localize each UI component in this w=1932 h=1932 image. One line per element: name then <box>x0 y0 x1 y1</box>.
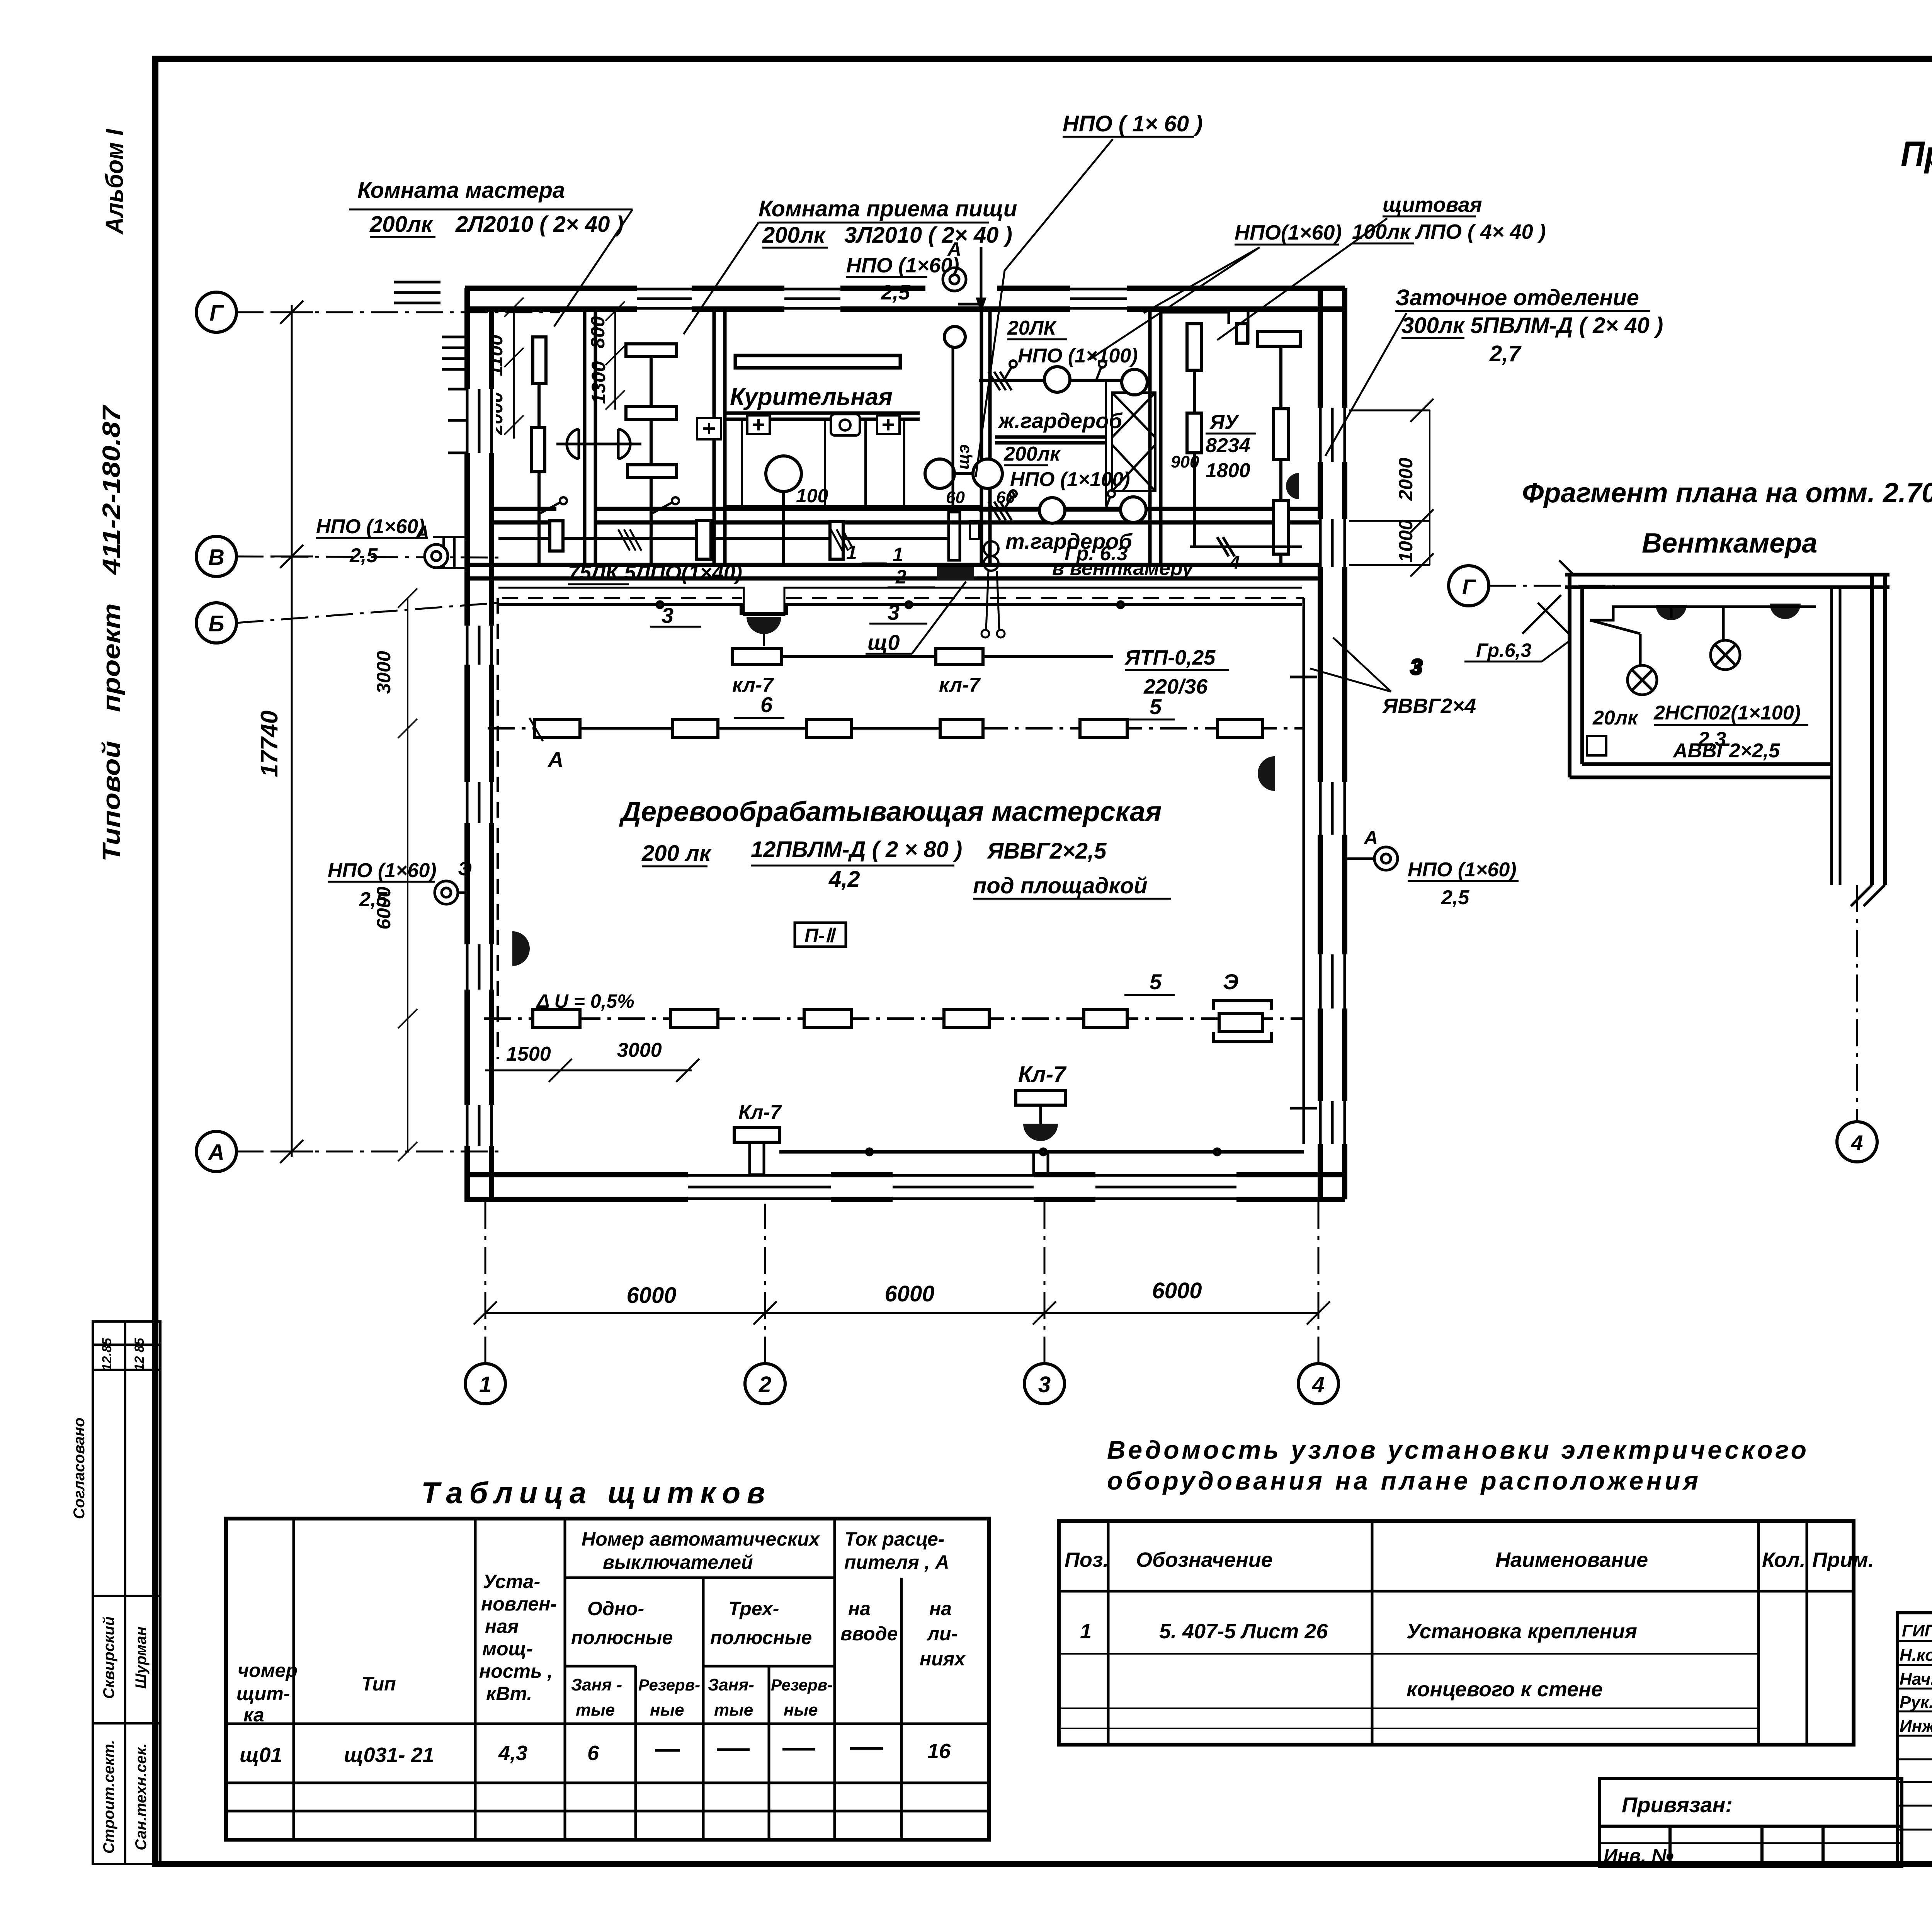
svg-text:3Л2010 ( 2× 40 ): 3Л2010 ( 2× 40 ) <box>844 223 1012 248</box>
vedomost title <box>1107 1435 1806 1495</box>
svg-text:НПО (1×60): НПО (1×60) <box>328 859 437 882</box>
svg-text:200 лк: 200 лк <box>641 841 712 866</box>
switch room lamps <box>1187 324 1300 565</box>
shchO panel black <box>937 567 974 580</box>
svg-text:1300: 1300 <box>588 361 609 404</box>
svg-text:НПО (1×100): НПО (1×100) <box>1018 345 1138 367</box>
mini plan entry arrow <box>1522 560 1575 634</box>
smoking room bench <box>735 355 900 368</box>
svg-text:3: 3 <box>1038 1372 1051 1397</box>
kl-7 row boxes <box>732 648 1113 665</box>
svg-text:чомер: чомер <box>238 1660 298 1681</box>
svg-text:6000: 6000 <box>884 1281 934 1306</box>
svg-text:2,5: 2,5 <box>359 888 388 911</box>
svg-text:Принципиальная схема питающей: Принципиальная схема питающей сети <box>1901 134 1932 174</box>
svg-text:щ0: щ0 <box>867 630 900 655</box>
svg-text:5: 5 <box>1150 694 1162 719</box>
svg-text:ные: ные <box>784 1701 818 1719</box>
hall top dashed wiring <box>502 597 1304 599</box>
svg-text:200лк: 200лк <box>762 223 826 248</box>
smoking room plus box <box>697 418 721 439</box>
npo 1x60 2,5 center <box>846 254 959 304</box>
svg-text:Установка крепления: Установка крепления <box>1406 1620 1637 1643</box>
riser double circle A top <box>925 236 997 304</box>
svg-text:2,5: 2,5 <box>1441 886 1469 909</box>
svg-text:П-Ⅱ: П-Ⅱ <box>804 925 837 946</box>
svg-text:Резерв-: Резерв- <box>638 1676 700 1694</box>
svg-text:Комната мастера: Комната мастера <box>357 178 565 203</box>
plan bottom wall <box>467 1175 1345 1199</box>
tablitsa shchitkov frame <box>226 1519 989 1840</box>
wall lamp black <box>1286 473 1299 499</box>
svg-text:Кл-7: Кл-7 <box>738 1101 782 1124</box>
P-II box label <box>795 923 846 947</box>
entry steps left <box>433 537 465 568</box>
svg-text:Э: Э <box>1223 969 1238 994</box>
svg-text:Номер автоматических: Номер автоматических <box>582 1528 821 1550</box>
svg-text:щитовая: щитовая <box>1383 193 1482 216</box>
axis dash-dot lines <box>236 312 1318 1364</box>
svg-text:6000: 6000 <box>1152 1278 1202 1303</box>
margin text project number <box>97 404 125 862</box>
YaU 8234 label <box>1206 411 1250 482</box>
corridor lamps <box>550 520 843 559</box>
svg-text:200лк: 200лк <box>369 212 434 237</box>
svg-text:ГИП: ГИП <box>1902 1621 1932 1640</box>
hall row1 lamp rects <box>535 719 1263 737</box>
hall door notch lamp <box>747 617 781 634</box>
wardrobe lamps row1 <box>979 367 1147 395</box>
svg-text:75ЛК 5ЛПО(1×40): 75ЛК 5ЛПО(1×40) <box>568 561 742 584</box>
svg-text:кВт.: кВт. <box>486 1683 532 1704</box>
svg-text:4,3: 4,3 <box>498 1742 527 1765</box>
svg-text:тые: тые <box>714 1701 753 1719</box>
svg-text:Деревообрабатывающая мастерск: Деревообрабатывающая мастерская <box>619 796 1162 827</box>
svg-text:12ПВЛМ-Д ( 2 × 80 ): 12ПВЛМ-Д ( 2 × 80 ) <box>751 837 962 862</box>
svg-text:на: на <box>848 1598 871 1619</box>
svg-text:ЯВВГ2×4: ЯВВГ2×4 <box>1382 694 1476 718</box>
svg-text:Заточное отделение: Заточное отделение <box>1395 285 1639 310</box>
row1 labels 6 5 <box>760 692 1162 719</box>
interior dim chain lines <box>504 298 1430 565</box>
privyazan block <box>1600 1779 1902 1866</box>
svg-text:Курительная: Курительная <box>730 384 893 410</box>
bottom kl-7 mid with lamp <box>1016 1062 1067 1175</box>
svg-text:300лк 5ПВЛМ-Д ( 2× 40 ): 300лк 5ПВЛМ-Д ( 2× 40 ) <box>1401 313 1663 338</box>
wc plus box <box>747 415 900 434</box>
svg-text:1800: 1800 <box>1206 459 1250 482</box>
switch room bottom wire <box>1190 537 1302 556</box>
svg-text:мощ-: мощ- <box>482 1638 533 1660</box>
svg-text:Обозначение: Обозначение <box>1136 1548 1273 1571</box>
komnata priema label <box>759 196 1017 248</box>
svg-text:60: 60 <box>946 488 965 507</box>
svg-text:2,7: 2,7 <box>1489 341 1522 366</box>
svg-text:НПО ( 1× 60 ): НПО ( 1× 60 ) <box>1063 111 1202 136</box>
svg-text:Типовой проект 411-2-180.87: Типовой проект 411-2-180.87 <box>97 404 125 862</box>
right A marker <box>1374 847 1398 870</box>
mini plan axis 4 <box>1856 885 1858 1121</box>
svg-text:3: 3 <box>888 600 900 624</box>
grid axis letter circles <box>196 292 236 1172</box>
svg-text:5: 5 <box>1150 969 1162 994</box>
YaTP label <box>1124 646 1216 698</box>
svg-text:20лк: 20лк <box>1592 707 1639 729</box>
hall right dash-dot riser <box>498 588 1304 1144</box>
svg-text:1: 1 <box>479 1372 492 1397</box>
svg-text:Альбом I: Альбом I <box>100 129 128 235</box>
svg-text:Заня-: Заня- <box>708 1675 754 1694</box>
svg-text:НПО (1×60): НПО (1×60) <box>846 254 959 277</box>
svg-text:8234: 8234 <box>1206 434 1250 457</box>
svg-text:1: 1 <box>893 544 903 565</box>
tablitsa header texts <box>236 1528 966 1726</box>
svg-text:12 85: 12 85 <box>132 1337 147 1371</box>
svg-text:новлен-: новлен- <box>481 1593 557 1615</box>
axis number circles 1-4 <box>465 1364 1338 1404</box>
svg-text:АВВГ2×2,5: АВВГ2×2,5 <box>1672 740 1780 762</box>
svg-text:Кол.: Кол. <box>1762 1548 1806 1571</box>
hall fixture row2 dash-dot <box>484 1017 1304 1020</box>
svg-text:концевого к стене: концевого к стене <box>1406 1678 1603 1701</box>
svg-text:Наименование: Наименование <box>1495 1548 1648 1571</box>
svg-text:под площадкой: под площадкой <box>973 873 1148 898</box>
svg-text:20ЛК: 20ЛК <box>1007 317 1057 339</box>
svg-text:полюсные: полюсные <box>710 1627 812 1648</box>
svg-text:2НСП02(1×100): 2НСП02(1×100) <box>1653 702 1801 724</box>
plan outer walls: top wall <box>465 288 1345 309</box>
svg-text:4,2: 4,2 <box>828 867 860 892</box>
mini plan x-lamps <box>1628 640 1740 695</box>
svg-text:Сан.техн.сек.: Сан.техн.сек. <box>133 1743 150 1850</box>
svg-text:16: 16 <box>927 1740 951 1763</box>
svg-text:3000: 3000 <box>617 1039 662 1061</box>
svg-text:17740: 17740 <box>256 711 283 777</box>
svg-text:12.85: 12.85 <box>100 1337 114 1371</box>
svg-text:Одно-: Одно- <box>587 1598 644 1619</box>
svg-text:Э: Э <box>458 858 472 879</box>
hall left dashed riser <box>497 598 499 1059</box>
svg-text:2Л2010 ( 2× 40 ): 2Л2010 ( 2× 40 ) <box>455 212 624 237</box>
svg-text:3: 3 <box>1410 655 1422 679</box>
svg-text:ниях: ниях <box>920 1648 966 1670</box>
svg-text:4: 4 <box>1312 1372 1325 1397</box>
svg-text:Трех-: Трех- <box>728 1598 779 1619</box>
svg-text:Резерв-: Резерв- <box>771 1676 833 1694</box>
svg-text:в венткамеру: в венткамеру <box>1052 557 1194 580</box>
svg-text:4: 4 <box>1850 1131 1863 1155</box>
svg-text:Сквирский: Сквирский <box>100 1616 117 1699</box>
svg-text:Согласовано: Согласовано <box>71 1418 88 1519</box>
room1 speaker symbols <box>556 429 641 459</box>
svg-text:200лк: 200лк <box>1003 443 1061 465</box>
wc partitions <box>725 419 981 506</box>
room2 switch <box>651 497 679 514</box>
svg-text:ная: ная <box>485 1616 519 1637</box>
wardrobe row1 switch <box>988 361 1106 390</box>
wc lamps 60 60 <box>925 459 1002 488</box>
svg-text:2: 2 <box>759 1372 771 1397</box>
zatochnoe label <box>1395 285 1663 366</box>
svg-text:ЯТП-0,25: ЯТП-0,25 <box>1124 646 1216 669</box>
svg-text:Привязан:: Привязан: <box>1622 1793 1733 1817</box>
bottom kl-7 left <box>734 1101 782 1175</box>
svg-text:6: 6 <box>587 1742 599 1765</box>
svg-text:Таблица щитков: Таблица щитков <box>421 1476 765 1510</box>
bottom wall window openings <box>688 1171 1236 1204</box>
svg-text:Ведомость узлов устан: Ведомость узлов установки электрического <box>1107 1435 1806 1464</box>
svg-text:5. 407-5 Лист 26: 5. 407-5 Лист 26 <box>1159 1620 1328 1643</box>
svg-text:тые: тые <box>576 1701 615 1719</box>
svg-text:Строит.сект.: Строит.сект. <box>100 1740 117 1854</box>
svg-text:А: А <box>547 747 563 772</box>
svg-text:3000: 3000 <box>373 651 395 694</box>
svg-text:Ток расце-: Ток расце- <box>844 1528 944 1550</box>
mini plan inner partition <box>1832 587 1840 777</box>
svg-text:НПО (1×60): НПО (1×60) <box>1408 859 1517 881</box>
svg-text:Н.контр: Н.контр <box>1900 1646 1932 1665</box>
svg-text:4: 4 <box>1229 553 1240 573</box>
right side small dimension ticks <box>1345 399 1434 577</box>
interior dim chain left <box>398 588 417 1161</box>
ground T symbols right riser <box>1290 677 1317 1108</box>
gr 6.3 vent label <box>1052 543 1194 580</box>
svg-text:100: 100 <box>796 485 828 507</box>
svg-text:НПО (1×100): НПО (1×100) <box>1010 468 1130 491</box>
wall lamp left black <box>512 931 530 966</box>
svg-text:ные: ные <box>650 1701 684 1719</box>
svg-text:Инв. №: Инв. № <box>1604 1845 1673 1867</box>
room2 lamps L2 <box>626 344 677 565</box>
svg-text:ж.гардероб: ж.гардероб <box>997 408 1122 433</box>
mini plan door bottom <box>1832 777 1885 906</box>
svg-text:А: А <box>1363 827 1378 849</box>
svg-text:щит-: щит- <box>236 1683 290 1704</box>
svg-text:2,5: 2,5 <box>349 544 378 567</box>
svg-text:ность ,: ность , <box>479 1660 553 1682</box>
mini plan wiring <box>1590 607 1816 678</box>
wardrobe row2 switch <box>988 490 1115 520</box>
balcony marks top-left <box>394 282 465 369</box>
svg-text:кл-7: кл-7 <box>939 674 981 696</box>
row2 labels <box>1150 969 1238 994</box>
svg-text:щэ: щэ <box>954 444 973 469</box>
wardrobe lamps row2 <box>979 497 1146 523</box>
row1 wire segments <box>580 727 940 730</box>
bottom wire thick <box>779 1149 1304 1155</box>
svg-text:Прим.: Прим. <box>1812 1548 1874 1571</box>
left wall window openings <box>448 389 496 1146</box>
vertical dimension 17740 <box>270 301 313 1163</box>
plan right wall <box>1320 288 1345 1202</box>
left stamp block <box>93 1321 160 1864</box>
vedomost table <box>1059 1521 1854 1745</box>
svg-text:1000: 1000 <box>1395 519 1417 562</box>
wardrobe labels <box>997 408 1133 553</box>
hall row2 lamp rects <box>533 1001 1271 1041</box>
interior partitions upper band <box>585 309 1161 565</box>
svg-text:Комната приема пищи: Комната приема пищи <box>759 196 1017 221</box>
svg-text:Шурман: Шурман <box>133 1626 150 1689</box>
komnata mastera label <box>357 178 624 237</box>
svg-text:3: 3 <box>662 603 673 628</box>
svg-text:1100: 1100 <box>485 335 507 376</box>
room1 lamp L1 <box>532 337 546 565</box>
tablitsa data row <box>240 1740 951 1767</box>
left A marker <box>425 544 448 568</box>
svg-text:Кл-7: Кл-7 <box>1018 1062 1067 1087</box>
mini plan axis G <box>1449 566 1489 606</box>
svg-text:1500: 1500 <box>506 1043 551 1065</box>
corridor walls <box>467 509 1320 578</box>
svg-text:Уста-: Уста- <box>483 1571 540 1592</box>
svg-text:НПО (1×60): НПО (1×60) <box>316 515 425 538</box>
plan left wall <box>467 288 492 1202</box>
switch room riser wires <box>1161 312 1248 344</box>
left stamp dates <box>71 1337 150 1854</box>
wc lamp 100 <box>766 456 801 565</box>
svg-text:полюсные: полюсные <box>571 1627 673 1648</box>
svg-text:Б: Б <box>208 611 224 636</box>
svg-text:ЯВВГ2×2,5: ЯВВГ2×2,5 <box>986 838 1107 864</box>
wc toilet symbol <box>831 414 860 435</box>
wall lamp right black <box>1258 756 1275 791</box>
svg-text:1: 1 <box>1080 1620 1092 1643</box>
top labels with leaders <box>1063 111 1202 136</box>
left npo label <box>316 515 425 567</box>
svg-text:на: на <box>929 1598 952 1619</box>
svg-text:вводе: вводе <box>840 1623 898 1645</box>
svg-text:Инж:: Инж: <box>1900 1717 1932 1736</box>
top wall window openings <box>637 285 1127 312</box>
svg-text:1: 1 <box>846 542 857 563</box>
svg-text:выключателей: выключателей <box>603 1551 753 1573</box>
svg-text:НПО(1×60): НПО(1×60) <box>1235 221 1342 244</box>
svg-text:Фрагмент плана на отм. 2.700: Фрагмент плана на отм. 2.700 <box>1522 478 1932 509</box>
svg-text:2: 2 <box>895 566 906 588</box>
svg-text:ка: ка <box>243 1704 264 1726</box>
svg-text:ЯУ: ЯУ <box>1209 411 1240 434</box>
svg-text:Тип: Тип <box>361 1673 396 1695</box>
svg-text:Г: Г <box>1462 575 1476 599</box>
svg-text:Поз.: Поз. <box>1065 1548 1109 1571</box>
svg-text:Гр.6,3: Гр.6,3 <box>1476 639 1532 661</box>
mini plan light label <box>1592 702 1801 762</box>
corridor hatch marks <box>618 529 854 551</box>
margin text Album I <box>100 129 128 235</box>
svg-text:800: 800 <box>587 316 609 349</box>
crossed shaft box <box>1106 380 1155 506</box>
svg-text:6: 6 <box>760 692 773 717</box>
plan interior dimension texts rotated <box>373 316 1417 930</box>
mini plan ceiling lamps <box>1656 605 1687 620</box>
svg-text:Венткамера: Венткамера <box>1642 528 1817 559</box>
svg-text:щ031- 21: щ031- 21 <box>344 1743 434 1767</box>
svg-text:ли-: ли- <box>927 1623 957 1645</box>
svg-text:щ01: щ01 <box>240 1743 282 1767</box>
bottom dimension row 6000x3 <box>474 1301 1330 1325</box>
dim 1500 3000 <box>506 1039 662 1065</box>
svg-text:6000: 6000 <box>626 1283 676 1308</box>
left lower E marker <box>435 881 458 904</box>
svg-text:2000: 2000 <box>1395 457 1417 501</box>
svg-text:2,5: 2,5 <box>881 281 910 304</box>
svg-text:А: А <box>207 1140 224 1165</box>
shchitovaya label <box>1352 193 1546 243</box>
corridor wiring line <box>498 537 949 540</box>
room1 switch <box>539 497 567 514</box>
hall fixture row1 dash-dot <box>488 727 1304 730</box>
mini plan walls <box>1565 575 1889 885</box>
svg-text:Рук.гр.: Рук.гр. <box>1900 1693 1932 1712</box>
svg-text:Г: Г <box>209 301 224 326</box>
labels 3 3 shch0 <box>662 542 906 655</box>
small hook box mini plan <box>1587 736 1606 755</box>
right wall window openings <box>1316 408 1349 1144</box>
svg-text:Нач.отд: Нач.отд <box>1900 1670 1932 1689</box>
svg-text:пителя , А: пителя , А <box>844 1551 949 1573</box>
svg-text:Заня -: Заня - <box>571 1675 622 1694</box>
title block signature table <box>1898 1613 1932 1864</box>
hall name labels <box>619 796 1162 898</box>
svg-text:В: В <box>208 545 224 570</box>
fragment mini plan title <box>1522 478 1932 559</box>
